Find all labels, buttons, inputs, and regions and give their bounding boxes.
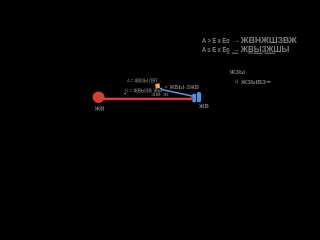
svg-text:A = ЖВЗЫ ПВТ→: A = ЖВЗЫ ПВТ→ — [127, 79, 162, 85]
svg-text:A ≤ E x Eo: A ≤ E x Eo — [202, 47, 230, 54]
svg-text:A > E x Eo: A > E x Eo — [202, 38, 230, 45]
orange marker point — [155, 83, 160, 88]
small descender marks under condition line 2 — [227, 53, 230, 54]
svg-text:ЖВ: ЖВ — [93, 107, 104, 113]
blue measurement line from marker to blue object — [161, 89, 194, 96]
svg-text:Ж: Ж — [162, 92, 169, 98]
svg-text:ЗВ: ЗВ — [151, 92, 161, 98]
svg-text:= ЖВЫ·ЗЖВ: = ЖВЫ·ЗЖВ — [164, 85, 199, 91]
red sphere (left object) — [93, 91, 105, 103]
svg-text:ЖВЫЗЖШЫ: ЖВЫЗЖШЫ — [240, 44, 289, 54]
red travel line — [104, 98, 192, 101]
svg-text:ЖВ: ЖВ — [198, 104, 209, 110]
svg-text:ЖЗЫВЗ: ЖЗЫВЗ — [240, 80, 267, 86]
svg-text:ЖЗЫ: ЖЗЫ — [228, 70, 245, 76]
svg-text:→: → — [232, 36, 241, 45]
svg-text:4: 4 — [235, 80, 238, 86]
blue object (right), two lobes — [192, 94, 196, 103]
svg-text:→: → — [232, 45, 241, 54]
red arrowhead — [191, 97, 195, 101]
blue arrowhead pointing to orange marker — [159, 88, 162, 91]
